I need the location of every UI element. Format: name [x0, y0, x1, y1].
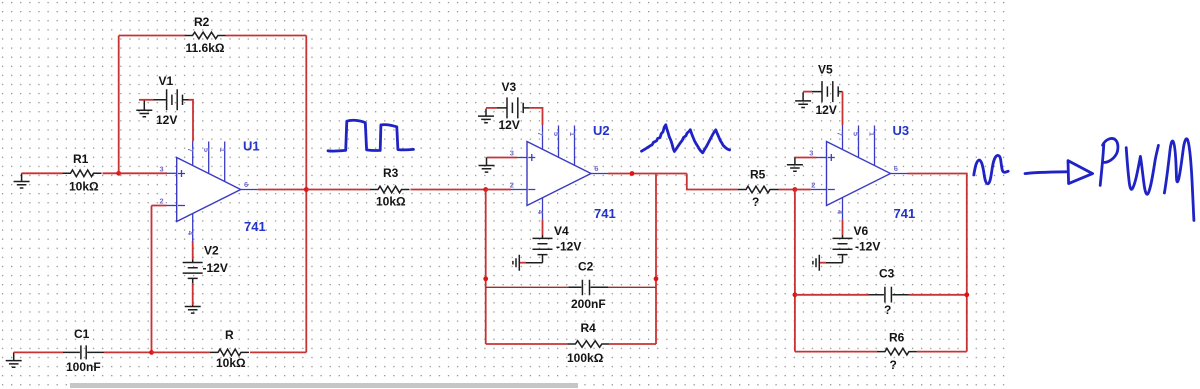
wire step down to R5 — [687, 174, 738, 190]
resistor R6 — [877, 348, 917, 355]
svg-text:R3: R3 — [383, 166, 399, 180]
ground (V3) — [478, 109, 494, 123]
svg-text:V1: V1 — [159, 74, 174, 88]
wire V6 from U3 pin4 — [842, 219, 844, 235]
wire R2 top left — [119, 35, 185, 37]
svg-text:C3: C3 — [879, 267, 895, 281]
wire U2 left feedback riser — [485, 190, 487, 345]
svg-text:R1: R1 — [73, 152, 89, 166]
wire C2 right — [608, 286, 656, 288]
U2 pin 6 stub — [591, 173, 608, 175]
svg-text:741: 741 — [594, 206, 616, 221]
op-amp U2 — [527, 142, 591, 206]
wire C3 right — [909, 294, 967, 296]
wire R5 to node F — [779, 189, 795, 191]
svg-text:6: 6 — [594, 164, 598, 173]
ground (U3 pin3) — [787, 158, 803, 172]
svg-text:C1: C1 — [74, 327, 90, 341]
svg-text:7: 7 — [536, 132, 545, 136]
svg-text:C2: C2 — [578, 260, 594, 274]
U3 pin 6 stub — [891, 173, 908, 175]
wire U1 pin2 vertical (node C riser) — [152, 206, 167, 353]
ground (V5) — [795, 92, 811, 107]
U2 pin 1 — [574, 126, 576, 166]
wire V3 ground lead — [486, 107, 497, 109]
node C junction dot — [149, 350, 154, 355]
svg-text:1: 1 — [568, 132, 577, 136]
ground (C1 input) — [6, 352, 22, 367]
svg-text:V6: V6 — [854, 224, 869, 238]
svg-text:R5: R5 — [750, 168, 766, 182]
node G junction dot — [654, 276, 659, 281]
svg-text:12V: 12V — [816, 103, 837, 117]
svg-text:5: 5 — [851, 132, 860, 136]
annotation arrow — [1025, 161, 1093, 184]
wire R6 right — [917, 351, 967, 353]
node K junction dot — [964, 292, 969, 297]
svg-text:200nF: 200nF — [571, 297, 606, 311]
svg-text:?: ? — [752, 195, 759, 209]
op-amp U3 — [827, 142, 891, 206]
svg-text:10kΩ: 10kΩ — [376, 195, 406, 209]
battery V5 — [812, 81, 843, 102]
annotation letter W — [1126, 145, 1158, 194]
ground (R1 input) — [14, 173, 30, 188]
U2 pin 2 stub — [511, 189, 527, 191]
svg-text:2: 2 — [160, 197, 164, 206]
wire U3 output to right loop — [908, 174, 967, 352]
svg-text:5: 5 — [202, 148, 211, 152]
resistor R — [210, 349, 249, 356]
wire ground to C1 — [14, 351, 63, 353]
wire V6 to side ground — [820, 262, 827, 264]
wire V1 to U1 pin7 — [189, 100, 194, 141]
wire R4 left — [486, 343, 568, 345]
svg-text:R6: R6 — [889, 331, 905, 345]
wire node F to U3 pin2 — [795, 189, 811, 191]
svg-text:12V: 12V — [156, 113, 177, 127]
node H junction dot — [483, 276, 488, 281]
annotation small PWM wave sketch — [974, 155, 1008, 183]
svg-text:7: 7 — [835, 132, 844, 136]
wire U1 output to node B — [258, 189, 307, 191]
svg-text:V5: V5 — [818, 63, 833, 77]
U1 pin 3 stub — [167, 172, 177, 174]
svg-text:6: 6 — [244, 180, 248, 189]
ground (U2 pin3) — [479, 158, 495, 173]
wire U3 pin3 to ground — [795, 157, 817, 159]
resistor R1 — [63, 170, 102, 177]
svg-text:-12V: -12V — [855, 240, 880, 254]
wire R2 top right — [226, 35, 306, 37]
svg-text:2: 2 — [510, 181, 514, 190]
capacitor C3 — [869, 287, 909, 303]
node B junction dot — [304, 187, 309, 192]
resistor R4 — [567, 341, 609, 348]
wire U2 feedback riser — [655, 174, 657, 345]
svg-text:100nF: 100nF — [66, 360, 101, 374]
U3 pin 7 — [842, 125, 844, 149]
U2 pin 5 — [558, 126, 560, 158]
resistor R5 — [738, 186, 779, 193]
wire C1 to node C — [104, 351, 152, 353]
U3 pin 4 — [842, 198, 844, 220]
wire node B to R3 — [306, 189, 370, 191]
capacitor C1 — [63, 345, 104, 359]
svg-text:10kΩ: 10kΩ — [69, 180, 99, 194]
svg-text:10kΩ: 10kΩ — [216, 356, 246, 370]
U3 pin 2 stub — [811, 189, 827, 191]
ground (V6, sideways) — [813, 255, 819, 271]
U3 pin 1 — [874, 126, 876, 166]
wire V5 to U3 pin7 — [842, 92, 844, 125]
wire R to right vertical — [250, 351, 306, 353]
svg-text:U1: U1 — [243, 139, 260, 154]
svg-text:R4: R4 — [581, 321, 597, 335]
wire node D to U2 pin2 — [486, 189, 511, 191]
annotation letter P — [1100, 139, 1118, 186]
node A junction dot — [116, 171, 121, 176]
ground (V1) — [136, 101, 152, 117]
svg-text:1: 1 — [867, 132, 876, 136]
wire R3 to node D — [411, 189, 486, 191]
battery V3 — [497, 97, 529, 118]
annotation letter M — [1164, 139, 1194, 221]
svg-text:12V: 12V — [499, 118, 520, 132]
node D junction dot — [483, 187, 488, 192]
U1 pin 5 — [208, 142, 210, 174]
battery V6 — [826, 235, 853, 263]
node J junction dot — [793, 292, 798, 297]
node F junction dot — [793, 187, 798, 192]
U1 pin 7 — [192, 141, 194, 166]
wire right vertical (R2/output/bottom loop) — [305, 36, 307, 353]
svg-text:V4: V4 — [554, 224, 569, 238]
svg-text:R2: R2 — [194, 15, 210, 29]
bottom scrollbar band — [70, 383, 578, 388]
svg-text:V3: V3 — [502, 80, 517, 94]
op-amp U1 — [177, 158, 241, 222]
U2 pin 3 stub — [517, 157, 527, 159]
resistor R3 — [370, 186, 409, 193]
wire C2 left — [486, 286, 569, 288]
annotation square wave sketch — [328, 120, 414, 151]
wire R4 right — [610, 343, 656, 345]
wire R1 to node A — [103, 172, 119, 174]
wire ground to R1 — [22, 172, 63, 174]
wire node A to U1 pin3 — [119, 172, 167, 174]
wire R6 left — [795, 351, 877, 353]
wire V4 to side ground — [520, 262, 527, 264]
capacitor C2 — [568, 280, 608, 296]
svg-text:R: R — [225, 328, 234, 342]
svg-text:5: 5 — [552, 132, 561, 136]
svg-text:741: 741 — [894, 206, 916, 221]
wire V2 to ground — [192, 283, 194, 305]
svg-text:7: 7 — [186, 148, 195, 152]
svg-text:3: 3 — [160, 165, 164, 174]
wire V1 ground lead — [139, 99, 154, 101]
wire V3 to U2 pin7 — [529, 108, 543, 125]
svg-text:2: 2 — [811, 181, 815, 190]
svg-text:100kΩ: 100kΩ — [567, 351, 604, 365]
wire C3 left — [795, 294, 869, 296]
wire V4 from U2 pin4 — [542, 219, 544, 235]
svg-text:V2: V2 — [204, 244, 219, 258]
annotation triangle wave sketch — [642, 125, 730, 153]
ground (V2) — [185, 305, 201, 313]
svg-text:6: 6 — [894, 164, 898, 173]
wire U2 pin3 to ground — [487, 157, 518, 159]
svg-text:1: 1 — [218, 148, 227, 152]
svg-text:741: 741 — [244, 219, 266, 234]
svg-text:3: 3 — [510, 149, 514, 158]
svg-text:U2: U2 — [593, 123, 610, 138]
U3 pin 3 stub — [816, 157, 826, 159]
svg-text:?: ? — [890, 358, 897, 372]
ground (V4, sideways) — [513, 255, 519, 271]
svg-text:?: ? — [884, 303, 891, 317]
battery V4 — [526, 235, 553, 263]
U2 pin 7 — [542, 125, 544, 149]
battery V1 — [154, 89, 189, 110]
svg-text:3: 3 — [809, 149, 813, 158]
wire U3 left feedback riser — [794, 190, 796, 352]
U1 pin 1 — [224, 142, 226, 182]
U2 pin 4 — [542, 198, 544, 220]
wire U2 output — [608, 173, 687, 175]
wire U1 pin4 to V2 — [192, 241, 194, 260]
U3 pin 5 — [858, 126, 860, 158]
wire R2 left vertical — [118, 36, 120, 174]
U1 pin 4 — [192, 214, 194, 242]
svg-text:11.6kΩ: 11.6kΩ — [186, 41, 225, 55]
svg-text:U3: U3 — [893, 123, 910, 138]
svg-text:-12V: -12V — [203, 261, 228, 275]
node E junction dot (probe) — [630, 171, 635, 176]
resistor R2 — [185, 32, 226, 39]
U1 pin 6 stub — [241, 189, 258, 191]
wire node C to R — [152, 351, 211, 353]
wire V5 ground lead — [803, 91, 812, 93]
svg-text:-12V: -12V — [556, 240, 581, 254]
battery V2 — [183, 260, 203, 284]
U1 pin 2 stub — [167, 205, 177, 207]
